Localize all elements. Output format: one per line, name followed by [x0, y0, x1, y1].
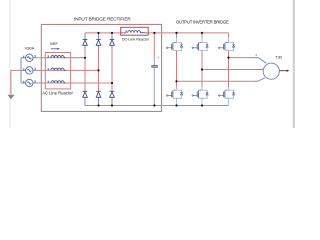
- svg-text:OUTPUT INVERTER BRIDGE: OUTPUT INVERTER BRIDGE: [176, 20, 229, 25]
- svg-text:V30A: V30A: [25, 45, 35, 50]
- svg-text:+: +: [157, 56, 159, 60]
- svg-text:INPUT BRIDGE RECTIFIER: INPUT BRIDGE RECTIFIER: [74, 17, 131, 22]
- svg-text:DC-Link Reactor: DC-Link Reactor: [122, 38, 150, 42]
- svg-text:AC Line Reactor: AC Line Reactor: [42, 91, 73, 96]
- svg-text:T30: T30: [275, 55, 282, 60]
- svg-text:BRF: BRF: [50, 42, 58, 46]
